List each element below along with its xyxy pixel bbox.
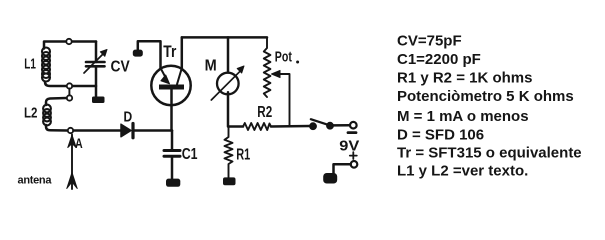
- node A circle: [68, 128, 73, 133]
- meter M circle: [217, 73, 239, 95]
- switch lever: [311, 119, 330, 125]
- svg-text:antena: antena: [18, 175, 53, 187]
- top rail wire: [182, 36, 267, 39]
- wire CV bottom lead to ground: [95, 66, 98, 97]
- antenna arrow lower (antenna symbol): [67, 173, 77, 189]
- wire L2 bottom to node A: [46, 125, 67, 131]
- svg-text:9V: 9V: [339, 137, 359, 154]
- svg-text:L2: L2: [24, 105, 38, 122]
- potentiometer wiper arrow: [277, 74, 290, 126]
- CV arrow: [84, 54, 104, 74]
- wire L2 top to lower terminal: [46, 98, 67, 105]
- svg-text:Tr: Tr: [163, 43, 176, 61]
- wire diode cathode to base node: [135, 129, 173, 132]
- resistor R2: [243, 123, 271, 130]
- battery terminal circle bottom: [351, 161, 358, 168]
- wire tank top from L1 top to CV top: [44, 42, 96, 49]
- transistor Tr circle: [151, 66, 190, 105]
- wire R2 to switch: [271, 125, 310, 128]
- wire switch to battery terminal: [333, 124, 349, 127]
- switch contact dot left: [310, 123, 317, 130]
- svg-text:Pot: Pot: [275, 50, 292, 66]
- svg-text:D: D: [124, 108, 133, 125]
- ground at battery: [323, 173, 337, 184]
- svg-text:CV: CV: [111, 59, 130, 76]
- battery plus sign: [350, 152, 357, 159]
- ground under CV: [92, 97, 105, 104]
- svg-text:M = 1 mA o menos: M = 1 mA o menos: [397, 108, 529, 125]
- svg-text:M: M: [205, 58, 217, 75]
- diode D: [121, 124, 131, 137]
- wire rail to meter: [227, 37, 230, 72]
- wire C1 bottom to ground: [171, 156, 174, 179]
- svg-text:CV=75pF: CV=75pF: [397, 33, 462, 50]
- diode D wire from node A: [74, 129, 122, 132]
- svg-text:R2: R2: [257, 104, 272, 121]
- antenna arrow upper: [68, 135, 76, 148]
- transistor base bar: [159, 85, 184, 90]
- ground under C1: [166, 179, 180, 187]
- capacitor C1 plates: [164, 149, 180, 152]
- node junction circle on tank top wire: [66, 39, 71, 44]
- wire meter to R1/R2 junction: [227, 92, 230, 126]
- svg-text:D = SFD 106: D = SFD 106: [397, 127, 484, 144]
- wire emitter to ground: [138, 41, 161, 68]
- inductor L2: [43, 105, 51, 126]
- svg-text:A: A: [75, 135, 83, 151]
- svg-text:R1 y R2 = 1K ohms: R1 y R2 = 1K ohms: [397, 70, 532, 87]
- parts list text block: [397, 33, 582, 180]
- wire base node down to C1: [171, 131, 174, 151]
- wire collector to top rail: [181, 37, 184, 68]
- svg-text:Potenciòmetro 5 K ohms: Potenciòmetro 5 K ohms: [397, 88, 574, 105]
- potentiometer Pot body: [264, 37, 271, 97]
- Pot label period: [296, 61, 299, 64]
- wire connecting terminal circles: [68, 89, 70, 96]
- resistor R1: [225, 127, 233, 179]
- transistor base lead down: [170, 90, 173, 131]
- transistor emitter lead with arrow: [161, 68, 165, 76]
- inductor L1: [42, 48, 50, 82]
- antenna lead wire: [71, 135, 73, 190]
- wire junction to R2: [229, 125, 244, 128]
- svg-text:L1: L1: [24, 56, 36, 72]
- wire terminal to CV bottom junction: [73, 85, 97, 88]
- ground at emitter: [133, 50, 143, 57]
- wire battery to ground: [334, 164, 351, 174]
- battery terminal circle top: [350, 122, 357, 129]
- svg-text:C1: C1: [182, 146, 198, 163]
- wire CV top lead: [95, 42, 98, 63]
- transistor collector lead inside: [177, 68, 182, 84]
- svg-text:R1: R1: [236, 147, 250, 164]
- variable capacitor CV plates: [86, 61, 105, 64]
- ground under R1: [223, 177, 236, 185]
- svg-text:Tr = SFT315 o equivalente: Tr = SFT315 o equivalente: [397, 145, 582, 162]
- terminal circle upper (L1 bottom): [67, 83, 72, 88]
- battery minus bar: [348, 131, 356, 134]
- switch contact dot right: [327, 122, 334, 129]
- terminal circle lower (L2 top): [67, 95, 72, 100]
- meter arrow: [211, 71, 240, 100]
- svg-text:C1=2200 pF: C1=2200 pF: [397, 51, 481, 68]
- svg-text:L1 y L2 =ver texto.: L1 y L2 =ver texto.: [397, 163, 528, 180]
- wire L1 bottom to terminal node: [45, 82, 67, 86]
